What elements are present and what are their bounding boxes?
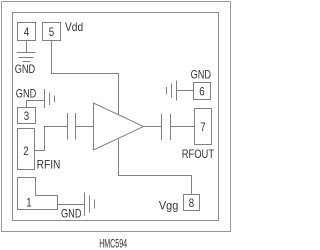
op-amp U1 (amplifier triangle) xyxy=(94,103,144,150)
capacitor C3 (output blocking) xyxy=(162,114,171,140)
wire pad4 to ground xyxy=(26,41,28,53)
svg-text:Vgg: Vgg xyxy=(159,199,178,213)
capacitor C5 to ground (bottom) xyxy=(85,193,95,217)
svg-text:4: 4 xyxy=(24,25,30,39)
svg-text:7: 7 xyxy=(200,120,206,134)
svg-text:6: 6 xyxy=(199,84,205,98)
capacitor C1 to ground (left) xyxy=(45,89,55,108)
svg-text:8: 8 xyxy=(189,196,195,210)
svg-text:3: 3 xyxy=(24,109,30,123)
IC package outline xyxy=(13,13,219,221)
svg-text:GND: GND xyxy=(15,62,36,76)
wire C2 to amp input xyxy=(76,126,94,128)
pad 6 xyxy=(194,83,211,100)
wire Vgg net: amp bottom down, right, down to pad8 xyxy=(119,139,192,195)
svg-text:RFIN: RFIN xyxy=(37,158,61,172)
wire Vdd net: pad5 down, right, down to amp top xyxy=(52,41,119,115)
wire amp output to C3 xyxy=(144,126,162,128)
svg-text:GND: GND xyxy=(16,87,37,101)
svg-text:GND: GND xyxy=(191,68,212,82)
border frame xyxy=(2,2,231,232)
svg-text:Vdd: Vdd xyxy=(65,20,83,34)
pad 8 xyxy=(184,195,200,211)
pad 4 xyxy=(18,23,36,41)
capacitor C4 to ground (right) xyxy=(167,81,177,101)
pad 7 (RFOUT) xyxy=(195,109,212,145)
wire C3 to pad7 xyxy=(171,126,195,128)
wire pad1 to bypass cap C5 xyxy=(58,204,85,206)
wire pad3 to bypass cap C1 xyxy=(27,101,45,108)
svg-text:RFOUT: RFOUT xyxy=(182,147,215,161)
svg-text:HMC594: HMC594 xyxy=(99,236,127,250)
svg-text:GND: GND xyxy=(61,206,82,220)
ground symbol GND pad4 xyxy=(17,53,36,62)
wire pad6 to bypass cap C4 xyxy=(177,90,194,92)
pad 3 xyxy=(18,108,36,124)
pad 2 (RFIN) xyxy=(18,129,35,170)
wire RFIN net: pad2 right, up, right to C2 xyxy=(35,127,68,151)
svg-text:1: 1 xyxy=(26,195,32,209)
pad 1 (L-shape) xyxy=(18,178,58,210)
svg-text:2: 2 xyxy=(23,144,29,158)
svg-text:5: 5 xyxy=(49,25,55,39)
capacitor C2 (input blocking) xyxy=(68,113,76,140)
pad 5 xyxy=(43,23,61,41)
